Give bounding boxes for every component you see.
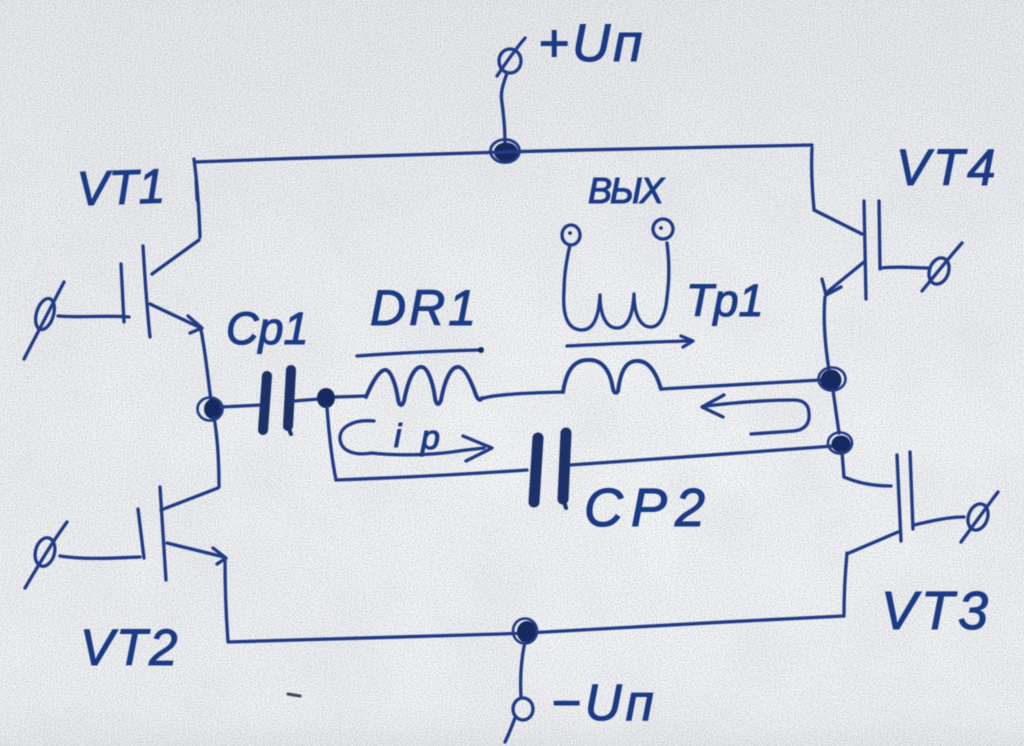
wire VT1 collector lead: [194, 159, 200, 237]
wire node B down: [327, 407, 336, 480]
node E (bottom -Up junction): [513, 619, 537, 644]
wire node A to VT2 collector: [214, 417, 219, 487]
node A: [198, 398, 223, 421]
svg-text:VT3: VT3: [881, 581, 992, 641]
wire VT3 emitter to bottom rail: [844, 553, 847, 614]
wire node D to VT3 collector: [842, 452, 844, 477]
svg-text:Cp1: Cp1: [226, 303, 309, 354]
svg-text:VT4: VT4: [896, 139, 999, 196]
terminal +Up: [497, 38, 525, 76]
wire node C to node D: [833, 390, 839, 433]
wire Cp1 to node B: [294, 399, 319, 401]
wire lower branch to CP2: [336, 470, 527, 480]
wire VT4 collector lead: [812, 148, 814, 209]
svg-text:+Uп: +Uп: [538, 14, 645, 73]
svg-text:DR1: DR1: [370, 280, 479, 336]
wire VT1 emitter to node A: [201, 330, 211, 400]
transistor VT1: [24, 240, 202, 359]
node C: [819, 368, 846, 391]
svg-text:ВЫХ: ВЫХ: [588, 170, 666, 211]
svg-text:VT2: VT2: [80, 619, 180, 676]
inductor DR1: [366, 367, 482, 405]
node D: [828, 433, 852, 454]
wire VT2 emitter lead: [225, 558, 228, 641]
wire node A to Cp1: [221, 405, 261, 407]
transistor VT3: [849, 452, 998, 553]
wire node C to VT4 emitter: [824, 297, 829, 370]
wire node E to -Up terminal: [521, 642, 525, 697]
current loop arrow ip: [340, 421, 492, 461]
svg-text:Tp1: Tp1: [686, 275, 764, 326]
return arrow (current direction): [702, 395, 809, 434]
transistor VT2: [25, 487, 226, 588]
node B: [317, 388, 335, 408]
svg-text:p: p: [420, 419, 440, 457]
svg-text:CP2: CP2: [584, 478, 713, 538]
wire node B to DR1: [335, 396, 366, 397]
capacitor CP2: [534, 433, 566, 508]
terminal -Up: [505, 698, 533, 742]
wire CP2 to node D: [570, 446, 834, 465]
transformer Tp1 primary winding: [563, 360, 661, 393]
stray pen mark: [288, 694, 300, 696]
wire DR1 to Tp1 primary: [481, 392, 563, 399]
svg-text:VT1: VT1: [76, 160, 166, 216]
wire Tp1 to node C: [661, 380, 821, 389]
transformer Tp1 secondary winding: [562, 219, 673, 330]
wire bottom rail: [228, 616, 844, 642]
wire top rail: [195, 145, 812, 162]
capacitor Cp1: [263, 370, 291, 434]
node top (+Up junction): [491, 140, 520, 163]
Tp1 underline arrow: [567, 336, 693, 347]
svg-text:−Uп: −Uп: [551, 674, 658, 731]
transistor VT4: [814, 201, 962, 299]
wire +Up terminal to top rail: [501, 73, 507, 143]
DR1 underline arrow: [357, 347, 484, 356]
